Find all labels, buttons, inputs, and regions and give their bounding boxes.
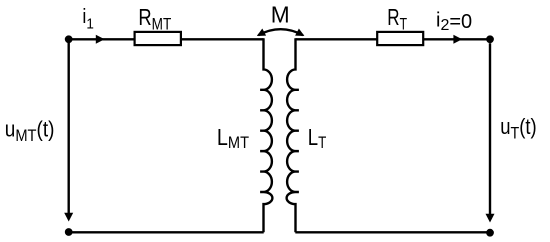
svg-text:M: M xyxy=(271,2,290,28)
svg-text:uT​(t): uT​(t) xyxy=(500,116,536,143)
